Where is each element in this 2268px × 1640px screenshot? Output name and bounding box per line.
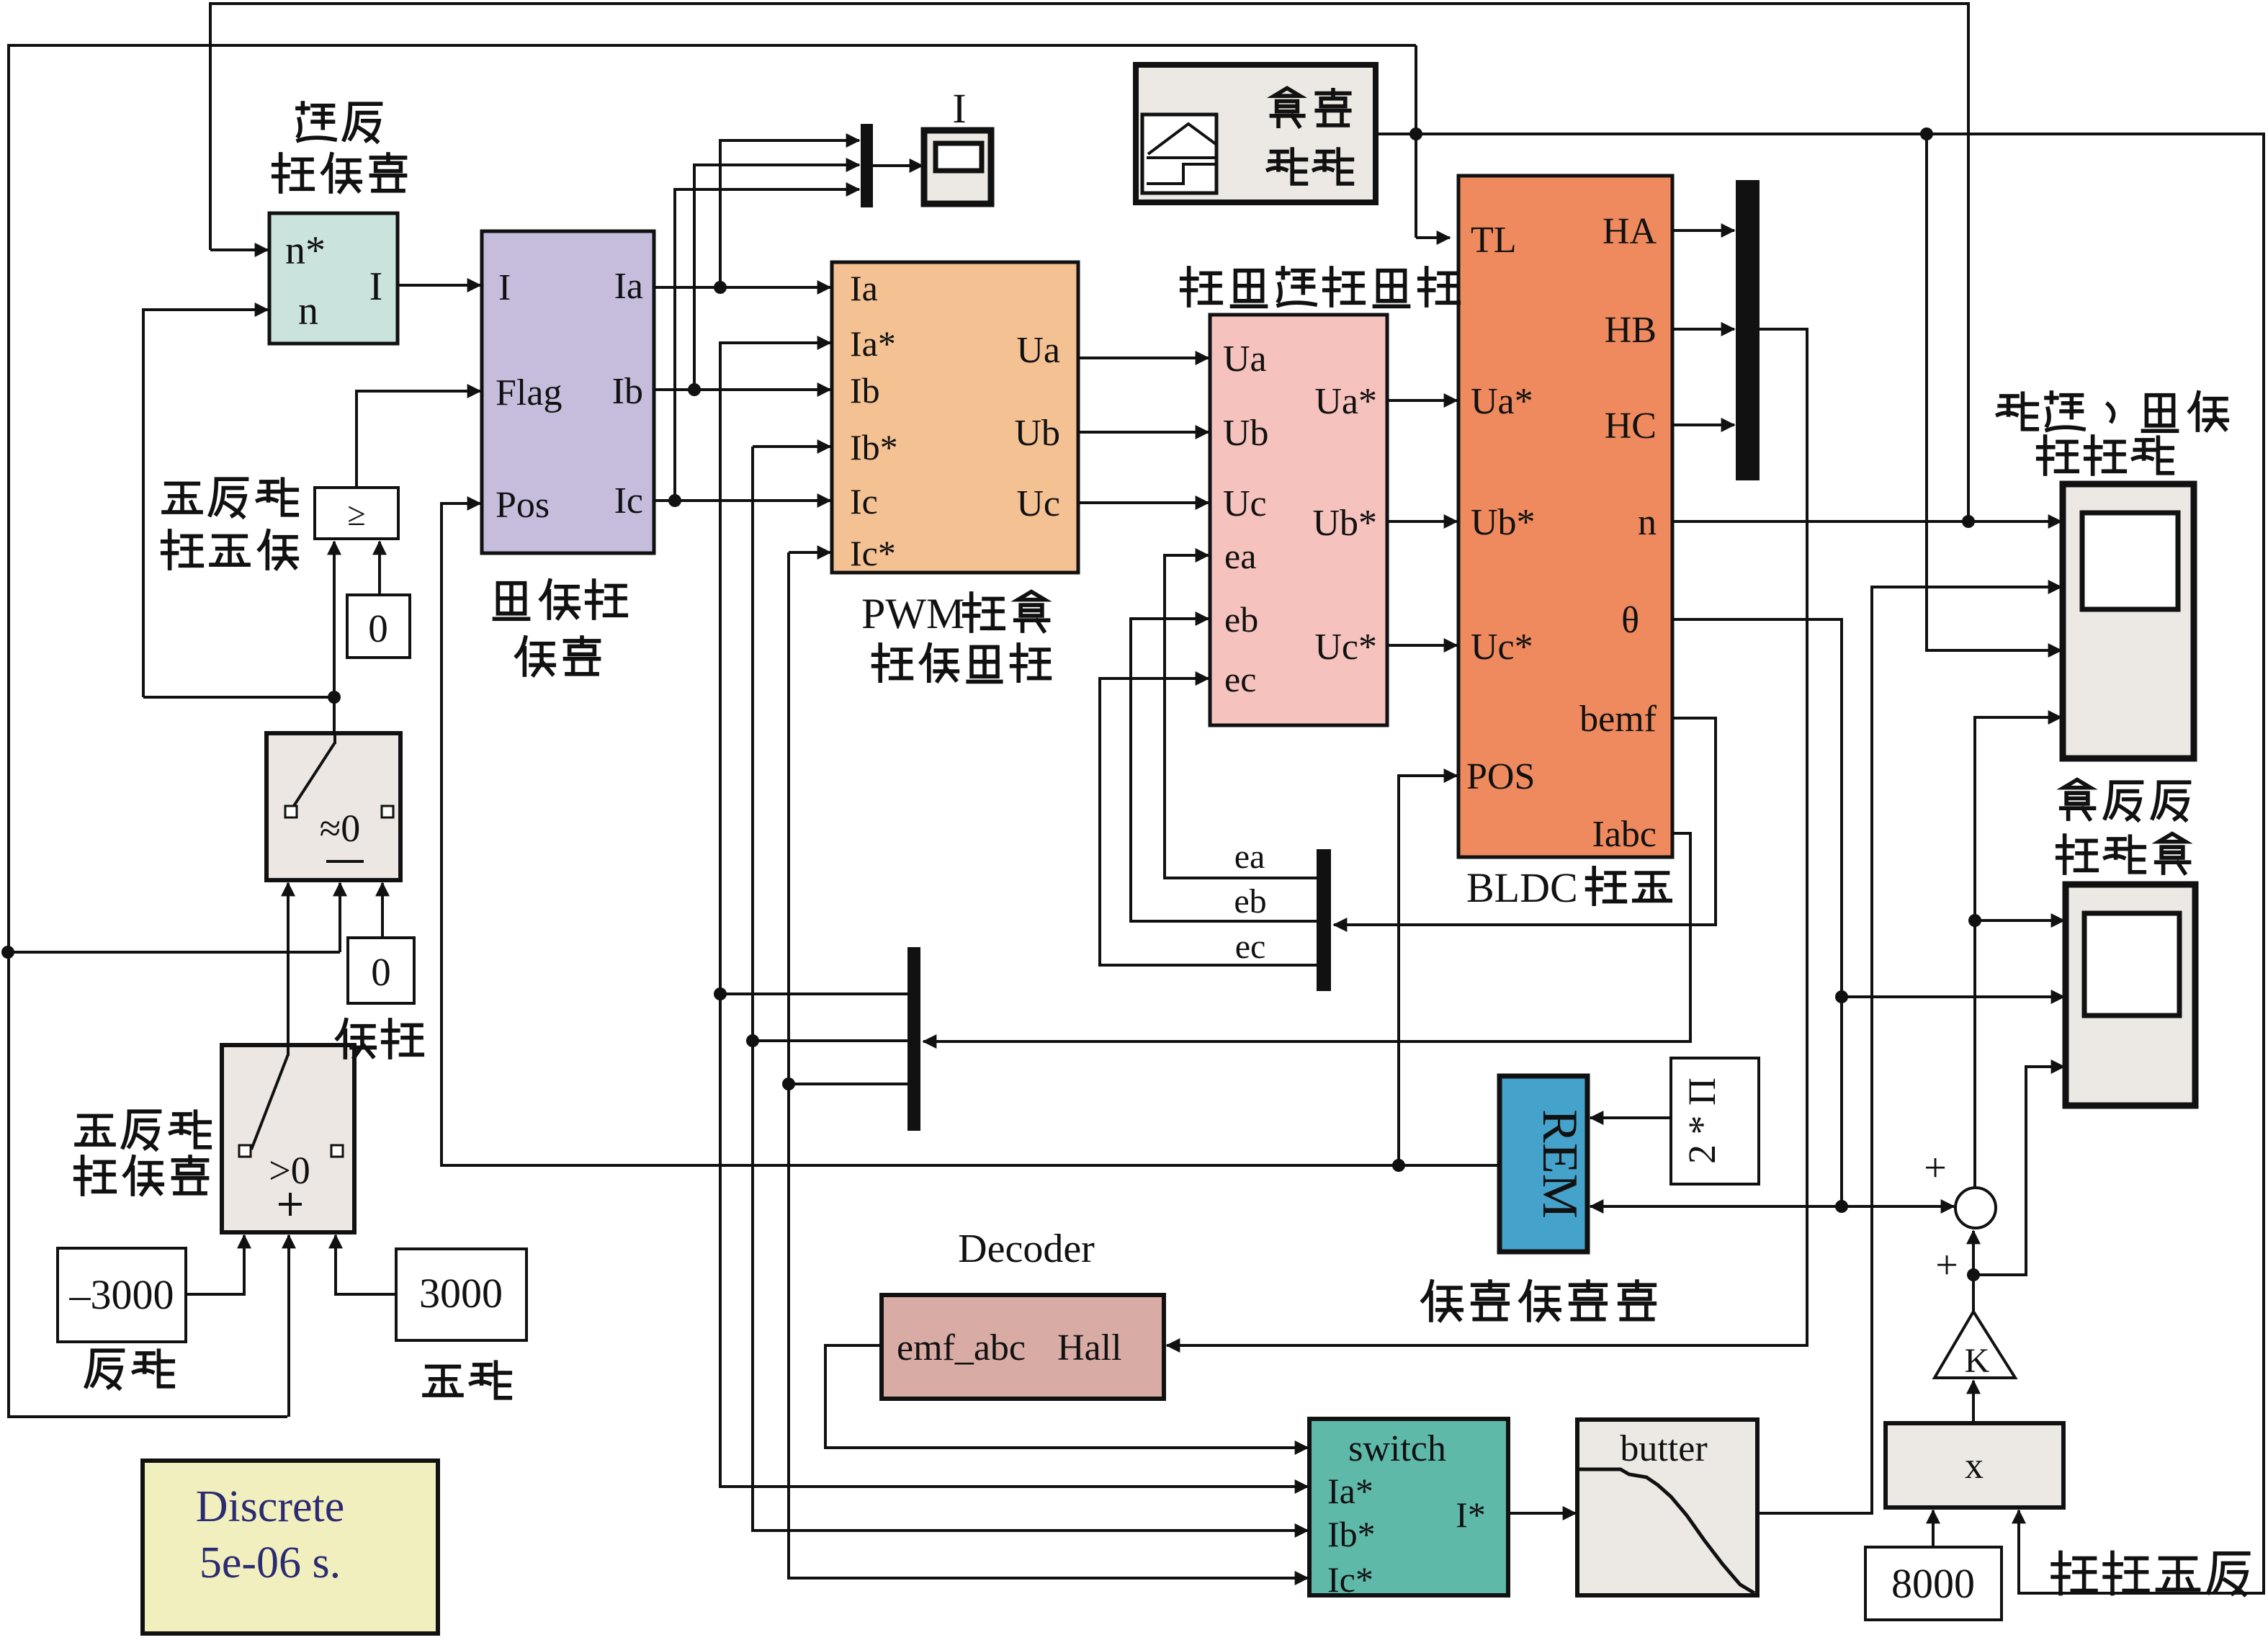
svg-text:Ia: Ia — [614, 266, 643, 307]
svg-text:I: I — [369, 264, 383, 309]
svg-text:Ub*: Ub* — [1471, 502, 1536, 543]
svg-text:Pos: Pos — [496, 485, 550, 526]
svg-text:Ic: Ic — [850, 481, 878, 521]
svg-text:Ic*: Ic* — [1327, 1559, 1373, 1600]
svg-text:n: n — [1638, 502, 1657, 543]
svg-text:HA: HA — [1603, 211, 1657, 252]
svg-text:Hall: Hall — [1057, 1327, 1122, 1368]
svg-text:Ub: Ub — [1223, 413, 1269, 454]
svg-text:2 * Π: 2 * Π — [1680, 1077, 1724, 1164]
svg-text:Ub*: Ub* — [1312, 503, 1377, 544]
svg-text:Ub: Ub — [1014, 413, 1060, 454]
svg-text:I*: I* — [1456, 1495, 1486, 1535]
svg-text:+: + — [1935, 1243, 1958, 1288]
svg-text:Ua: Ua — [1223, 339, 1267, 380]
svg-text:Ib: Ib — [612, 371, 643, 412]
svg-text:x: x — [1965, 1446, 1984, 1487]
svg-text:Ib*: Ib* — [850, 427, 898, 467]
svg-text:n*: n* — [285, 228, 326, 273]
svg-text:I: I — [952, 85, 966, 132]
svg-text:HC: HC — [1605, 405, 1657, 447]
svg-text:Discrete: Discrete — [196, 1482, 345, 1531]
svg-text:ec: ec — [1224, 659, 1256, 699]
svg-text:Ua*: Ua* — [1314, 381, 1377, 422]
svg-text:≈0: ≈0 — [320, 807, 361, 850]
svg-text:0: 0 — [371, 950, 391, 994]
svg-text:–3000: –3000 — [69, 1271, 174, 1318]
svg-text:ea: ea — [1224, 536, 1256, 576]
svg-text:Ib*: Ib* — [1327, 1514, 1376, 1554]
svg-text:Uc: Uc — [1223, 483, 1267, 524]
svg-text:eb: eb — [1224, 599, 1258, 640]
svg-text:butter: butter — [1620, 1428, 1707, 1469]
svg-text:HB: HB — [1605, 310, 1657, 351]
svg-text:TL: TL — [1471, 220, 1517, 261]
svg-text:Ua: Ua — [1016, 330, 1060, 371]
svg-text:eb: eb — [1234, 882, 1266, 920]
svg-text:I: I — [498, 267, 511, 308]
svg-text:Ia: Ia — [850, 268, 878, 308]
svg-text:bemf: bemf — [1579, 699, 1657, 740]
svg-text:+: + — [1924, 1146, 1947, 1191]
svg-text:Uc*: Uc* — [1471, 627, 1533, 668]
svg-text:emf_abc: emf_abc — [897, 1327, 1026, 1368]
svg-text:Uc*: Uc* — [1314, 627, 1377, 668]
svg-text:switch: switch — [1348, 1428, 1446, 1469]
svg-text:≥: ≥ — [347, 496, 365, 532]
svg-text:Iabc: Iabc — [1592, 814, 1657, 855]
svg-text:3000: 3000 — [419, 1270, 503, 1317]
svg-text:REM: REM — [1532, 1109, 1587, 1219]
svg-text:Ua*: Ua* — [1471, 381, 1533, 422]
svg-text:θ: θ — [1621, 600, 1639, 641]
svg-text:K: K — [1965, 1342, 1990, 1380]
svg-text:0: 0 — [368, 606, 388, 650]
svg-text:POS: POS — [1466, 756, 1535, 797]
svg-text:Ic*: Ic* — [850, 533, 896, 573]
svg-text:n: n — [298, 289, 318, 333]
svg-text:Ia*: Ia* — [850, 323, 896, 364]
svg-text:ea: ea — [1234, 838, 1265, 876]
svg-text:Uc: Uc — [1016, 483, 1060, 524]
svg-text:Flag: Flag — [496, 372, 562, 413]
svg-text:ec: ec — [1235, 928, 1266, 966]
svg-text:Ia*: Ia* — [1327, 1471, 1373, 1511]
svg-text:Ic: Ic — [614, 480, 643, 521]
svg-text:Ib: Ib — [850, 370, 880, 411]
svg-text:BLDC: BLDC — [1466, 864, 1578, 911]
svg-text:PWM: PWM — [861, 590, 964, 637]
svg-text:8000: 8000 — [1891, 1560, 1975, 1607]
svg-text:Decoder: Decoder — [958, 1227, 1095, 1271]
svg-text:5e-06 s.: 5e-06 s. — [200, 1538, 341, 1587]
svg-text:>0: >0 — [269, 1149, 310, 1192]
